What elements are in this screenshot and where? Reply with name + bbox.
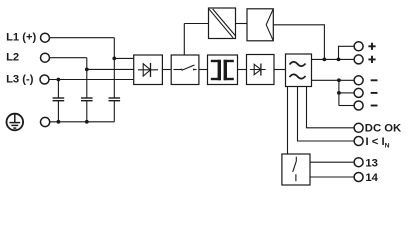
node L2 feed junction (85, 68, 89, 72)
svg-text:14: 14 (365, 172, 378, 184)
capacitor C1 (53, 98, 65, 101)
capacitor C3 (109, 98, 121, 101)
regulator U2 box (286, 54, 312, 87)
wire plus branch up (339, 46, 355, 59)
label minus 1 (371, 79, 378, 81)
node L3 capacitor junction (57, 78, 61, 82)
wire ground bus (50, 121, 115, 123)
wire C2 lower stub (86, 101, 88, 122)
svg-text:L2: L2 (6, 52, 19, 64)
node bus C1 (57, 120, 61, 124)
converter U3 diagonal lines (209, 9, 235, 38)
ground (protective earth symbol) (7, 114, 24, 131)
booster U4 box (arrowhead) (247, 9, 273, 41)
terminal minus 1 (354, 76, 363, 85)
svg-text:I < IN: I < IN (366, 136, 390, 150)
transformer T1 box (208, 55, 238, 85)
node top-branch join (323, 58, 327, 62)
wire L2 feed to rectifier (87, 68, 134, 70)
wire top branch horizontal left (184, 23, 208, 25)
terminal L1 (41, 33, 50, 42)
wire minus bus vertical (338, 80, 340, 105)
wire L2 horizontal (49, 57, 87, 59)
wire L1 horizontal (49, 37, 114, 39)
svg-text:L1 (+): L1 (+) (6, 32, 36, 44)
wire minus 3 branch (339, 105, 355, 107)
terminal plus 2 (354, 55, 363, 64)
wire capacitor C1 stub (57, 80, 59, 98)
rectifier U1 box (134, 55, 163, 85)
label minus 2 (371, 92, 378, 94)
label minus 3 (371, 105, 378, 107)
node minus 2 (337, 91, 341, 95)
node minus 1 (337, 78, 341, 82)
wire transformer to diode (238, 69, 247, 71)
relay K1 contact symbol (293, 157, 297, 182)
wire diode to regulator (274, 69, 286, 71)
switch S1 box (171, 55, 199, 85)
wire rectifier to switch (162, 69, 171, 71)
terminal minus 2 (354, 88, 363, 97)
svg-text:DC OK: DC OK (365, 123, 402, 135)
wire regulator bottom stub 1 (relay) (287, 87, 289, 155)
wire minus 2 branch (339, 92, 355, 94)
label plus 1 (368, 43, 375, 50)
wire L2 vertical drop (86, 58, 88, 98)
node plus branch (337, 58, 341, 62)
wire switch to transformer (199, 69, 208, 71)
terminal 14 (354, 173, 363, 182)
transformer T1 core symbol (211, 60, 234, 80)
wire C1 lower stub (57, 101, 59, 122)
wire regulator bottom stub 3 (DC OK) (307, 87, 355, 128)
regulator U2 sine symbols (290, 62, 306, 79)
diode D1 symbol (250, 64, 266, 76)
terminal 13 (354, 158, 363, 167)
wire minus output line (312, 79, 355, 81)
terminal L2 (41, 53, 50, 62)
node bus C2 (85, 120, 89, 124)
converter U3 box (diagonal) (209, 8, 236, 39)
wire regulator bottom stub 2 (I<In) (298, 87, 355, 142)
node L1 feed junction (112, 57, 116, 61)
terminal minus 3 (354, 101, 363, 110)
switch S1 symbol (174, 65, 197, 70)
terminal PE (41, 117, 50, 126)
wire L3 to rectifier (49, 79, 134, 81)
relay K1 box (282, 154, 310, 185)
terminal I&lt;In (354, 137, 363, 146)
svg-text:13: 13 (365, 157, 378, 169)
terminal DC OK (354, 123, 363, 132)
terminal plus 1 (354, 42, 363, 51)
wire C3 lower stub (113, 101, 115, 122)
wire L1 feed to rectifier (114, 57, 133, 59)
wire between top boxes (236, 23, 248, 25)
wire relay to 14 (310, 176, 354, 178)
wire top branch to output (273, 25, 324, 60)
label plus 2 (368, 56, 375, 63)
svg-text:L3 (-): L3 (-) (6, 73, 34, 85)
wire L1 vertical drop (113, 38, 115, 98)
diode D1 box (247, 55, 275, 85)
wire plus output line (312, 58, 355, 60)
wire relay to 13 (310, 161, 354, 163)
wire switch top branch vertical (183, 24, 185, 56)
rectifier U1 diode symbol (138, 63, 158, 77)
capacitor C2 (81, 98, 93, 101)
terminal L3 (40, 75, 49, 84)
booster U4 arrowhead (266, 9, 273, 41)
